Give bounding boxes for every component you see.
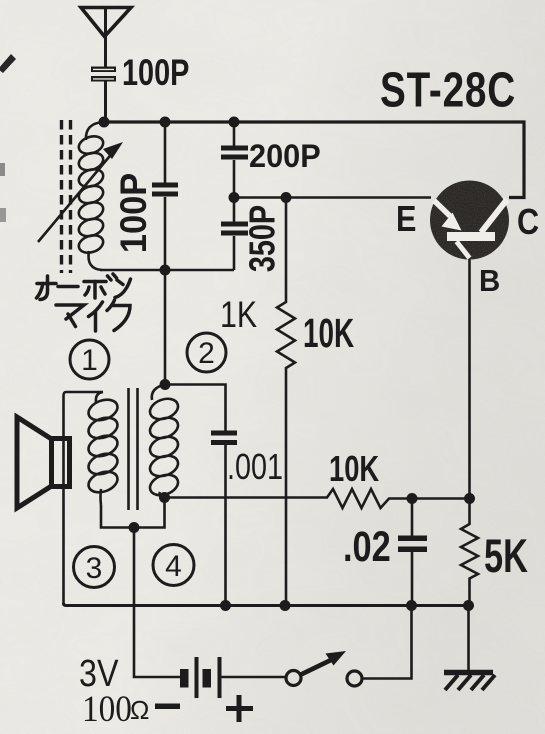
node top tank cap: [160, 117, 171, 128]
ground: [444, 673, 495, 691]
node secondary top: [160, 379, 171, 390]
node secondary bottom: [159, 492, 170, 503]
page edge speck 2: [0, 163, 5, 176]
node rail 10K: [280, 600, 291, 611]
core dashed lines (ferrite): [60, 120, 63, 273]
svg-text:5K: 5K: [484, 530, 528, 583]
label carbon mic katakana: [37, 274, 131, 331]
label plus: [226, 695, 253, 722]
variable inductor L1 tank coil: [77, 122, 106, 270]
label minus: [155, 704, 180, 710]
node .02 top: [407, 493, 418, 504]
wire secondary bottom / resistor R2 10K horizontal: [165, 489, 470, 508]
tank bottom wire: [100, 269, 234, 272]
transformer T1 primary coil: [86, 392, 121, 505]
node E line x286: [281, 192, 292, 203]
capacitor C4 350P wires: [233, 198, 236, 223]
svg-text:350P: 350P: [241, 205, 282, 272]
node center tap: [129, 522, 140, 533]
transistor Q1 base lead inside (white): [457, 242, 470, 259]
svg-text:10K: 10K: [303, 311, 354, 357]
svg-text:2: 2: [198, 337, 215, 370]
antenna: [81, 6, 131, 67]
bottom rail wire: [64, 603, 469, 606]
top rail wire: [103, 122, 524, 198]
switch SW1: [286, 651, 362, 686]
arrow (variable inductor): [38, 142, 123, 242]
capacitor C5 .001 plates: [211, 431, 237, 446]
resistor R3 5K: [461, 499, 478, 606]
svg-text:100P: 100P: [122, 53, 189, 94]
capacitor C6 .02 plates: [398, 536, 427, 553]
pin label 2: [187, 333, 226, 372]
wire E line: [234, 196, 431, 199]
battery BT1 3V: [180, 657, 222, 698]
wire secondary top to .001: [165, 385, 226, 432]
capacitor C6 .02 wires: [411, 499, 414, 537]
svg-text:10K: 10K: [329, 448, 379, 489]
wire tank bottom to transformer secondary: [164, 270, 167, 385]
capacitor C2 100P (tank) wires: [164, 122, 167, 183]
capacitor C3 200P wires: [233, 122, 236, 146]
pin label 1: [70, 340, 109, 379]
node rail .001: [220, 600, 231, 611]
node tank bottom: [160, 265, 171, 276]
svg-text:3: 3: [86, 552, 103, 585]
pin label 3: [74, 547, 115, 588]
node 200P bottom: [229, 192, 240, 203]
wire primary top to left side: [64, 392, 104, 604]
capacitor C3 200P plates: [221, 146, 248, 160]
wire battery to switch: [222, 676, 287, 679]
transformer T1 core: [127, 388, 130, 510]
capacitor C1 100P (antenna): [91, 67, 116, 82]
page edge speck 3: [0, 208, 6, 222]
capacitor C2 100P plates: [152, 183, 178, 197]
node B bottom: [464, 493, 475, 504]
transistor Q1 base bar (white): [447, 232, 495, 241]
svg-text:4: 4: [165, 550, 182, 583]
wire switch to rail: [362, 606, 412, 679]
transformer T1 bottom U with center tap: [101, 498, 165, 528]
svg-text:100: 100: [82, 688, 132, 729]
svg-text:C: C: [517, 203, 539, 243]
pin label 4: [153, 545, 194, 586]
svg-text:1K: 1K: [220, 294, 257, 336]
node rail switch: [406, 600, 417, 611]
node rail ground: [463, 600, 474, 611]
transformer T1 secondary coil: [147, 385, 181, 499]
svg-text:100P: 100P: [113, 173, 154, 253]
transistor Q1 collector line (white): [481, 200, 507, 233]
speaker SP: [17, 417, 70, 508]
page edge speck 1: [0, 54, 16, 73]
svg-text:B: B: [479, 264, 500, 298]
svg-text:E: E: [396, 200, 416, 240]
node top 200P: [229, 117, 240, 128]
svg-text:.02: .02: [343, 523, 391, 570]
capacitor C4 350P plates: [221, 222, 248, 236]
svg-text:Ω: Ω: [130, 695, 149, 725]
transistor Q1 emitter arrow (white): [434, 200, 507, 259]
resistor R1 10K vertical: [277, 198, 295, 606]
transistor Q1 body: [428, 178, 512, 262]
wire antenna cap to node: [104, 82, 107, 123]
svg-text:1: 1: [81, 344, 98, 377]
wire ground drop: [467, 606, 470, 671]
svg-text:.001: .001: [227, 446, 283, 487]
svg-text:200P: 200P: [249, 138, 321, 174]
wire base B down: [468, 260, 471, 499]
wire center tap to battery: [134, 528, 180, 678]
svg-text:ST-28C: ST-28C: [380, 63, 516, 117]
wire .001 to bottom rail: [224, 445, 227, 605]
node top-left: [99, 117, 110, 128]
